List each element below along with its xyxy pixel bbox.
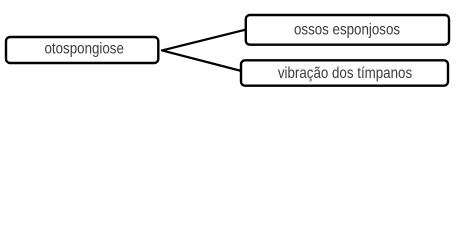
node vibração dos tímpanos (bottom child box) [241,60,448,85]
node ossos esponjosos (top child box) [246,15,449,45]
wire: upper connector from root vertex to top child box [162,29,247,50]
wire: lower connector from root vertex to bottom child box [162,50,242,71]
diagram: mind-map with root node and two child nodes [0,0,457,99]
svg-text:ossos esponjosos: ossos esponjosos [294,21,400,38]
svg-text:vibração dos tímpanos: vibração dos tímpanos [278,65,412,82]
node otospongiose (root box) [6,37,158,63]
svg-text:otospongiose: otospongiose [45,41,124,58]
